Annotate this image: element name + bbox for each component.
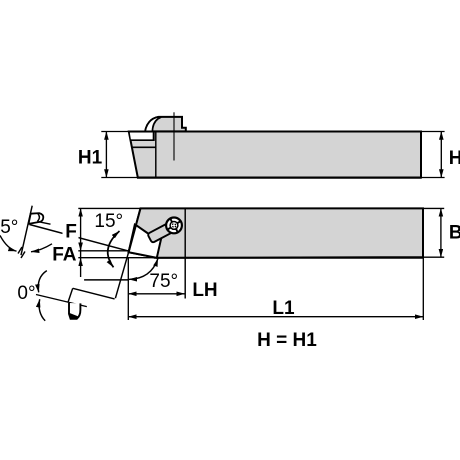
svg-text:LH: LH [192,280,217,301]
svg-text:0°: 0° [17,283,35,304]
svg-text:75°: 75° [149,271,178,292]
svg-text:5°: 5° [0,217,18,238]
svg-text:15°: 15° [94,211,123,232]
svg-text:FA: FA [52,245,77,266]
svg-text:B: B [449,223,460,244]
svg-text:H1: H1 [78,148,103,169]
svg-text:H = H1: H = H1 [257,330,317,351]
svg-text:F: F [65,221,77,242]
svg-text:H: H [449,148,460,169]
svg-text:L1: L1 [272,298,295,319]
